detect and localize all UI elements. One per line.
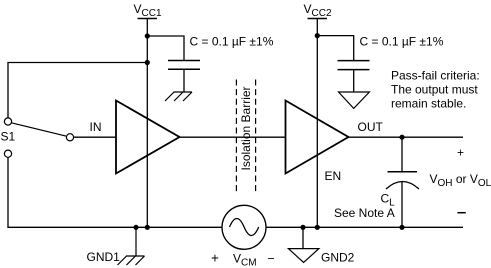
node OUT junction bbox=[399, 135, 404, 140]
power VCC2 bbox=[304, 2, 332, 19]
wire U1 output to U2 input bbox=[180, 136, 286, 138]
ground chassis (C1) bbox=[165, 92, 192, 101]
svg-text:OUT: OUT bbox=[358, 120, 384, 134]
wire OUT bbox=[349, 136, 464, 138]
wire OUT to CL bbox=[401, 137, 403, 172]
ground GND2 triangle bbox=[288, 227, 354, 264]
wire VCC1 to C1 bbox=[147, 36, 184, 61]
source VCM bbox=[211, 205, 275, 268]
node CL bus junction bbox=[399, 225, 404, 230]
node VCC2-C2 junction bbox=[315, 33, 320, 38]
node GND2 junction bbox=[300, 225, 305, 230]
svg-text:GND1: GND1 bbox=[87, 250, 121, 264]
buffer U2 bbox=[286, 101, 349, 174]
wire CL to bus bbox=[401, 181, 403, 227]
node EN rail junction bbox=[315, 225, 320, 230]
capacitor C1 bbox=[168, 61, 200, 70]
node VCC1-switch junction bbox=[145, 60, 150, 65]
svg-text:−: − bbox=[268, 252, 275, 266]
ground triangle (C2) bbox=[339, 92, 370, 108]
svg-text:Pass-fail criteria:: Pass-fail criteria: bbox=[391, 69, 480, 83]
wire VCC2 to C2 bbox=[317, 36, 353, 61]
wire ground bus bbox=[8, 157, 463, 227]
svg-text:EN: EN bbox=[325, 169, 342, 183]
svg-text:S1: S1 bbox=[1, 130, 16, 144]
svg-text:See Note A: See Note A bbox=[334, 206, 395, 220]
note pass-fail criteria bbox=[391, 69, 480, 111]
wire VCC1 to switch bbox=[8, 63, 147, 118]
node GND1 junction bbox=[133, 225, 138, 230]
svg-text:C = 0.1 µF ±1%: C = 0.1 µF ±1% bbox=[190, 35, 274, 49]
svg-text:IN: IN bbox=[90, 120, 102, 134]
switch S1 bbox=[1, 118, 74, 157]
wire C1 to ground bbox=[183, 69, 185, 92]
buffer U1 bbox=[116, 101, 180, 174]
power VCC1 bbox=[134, 2, 162, 19]
svg-text:GND2: GND2 bbox=[321, 251, 355, 265]
capacitor CL bbox=[386, 172, 419, 189]
ground GND1 chassis bbox=[87, 227, 145, 265]
svg-text:Isolation Barrier: Isolation Barrier bbox=[239, 86, 253, 170]
svg-text:The output must: The output must bbox=[391, 83, 478, 97]
isolation barrier bbox=[236, 80, 255, 193]
svg-text:+: + bbox=[211, 250, 219, 265]
terminal minus (output) bbox=[457, 212, 465, 214]
node U1 rail junction bbox=[145, 225, 150, 230]
node VCC1-C1 junction bbox=[145, 33, 150, 38]
svg-text:remain stable.: remain stable. bbox=[391, 97, 466, 111]
wire VCC1 rail bbox=[146, 19, 148, 228]
wire VCC2 rail bbox=[316, 19, 318, 228]
capacitor C2 bbox=[338, 61, 370, 70]
svg-text:C = 0.1 µF ±1%: C = 0.1 µF ±1% bbox=[360, 35, 444, 49]
svg-text:+: + bbox=[457, 146, 464, 160]
wire C2 to ground bbox=[353, 70, 355, 92]
wire IN bbox=[74, 136, 116, 138]
